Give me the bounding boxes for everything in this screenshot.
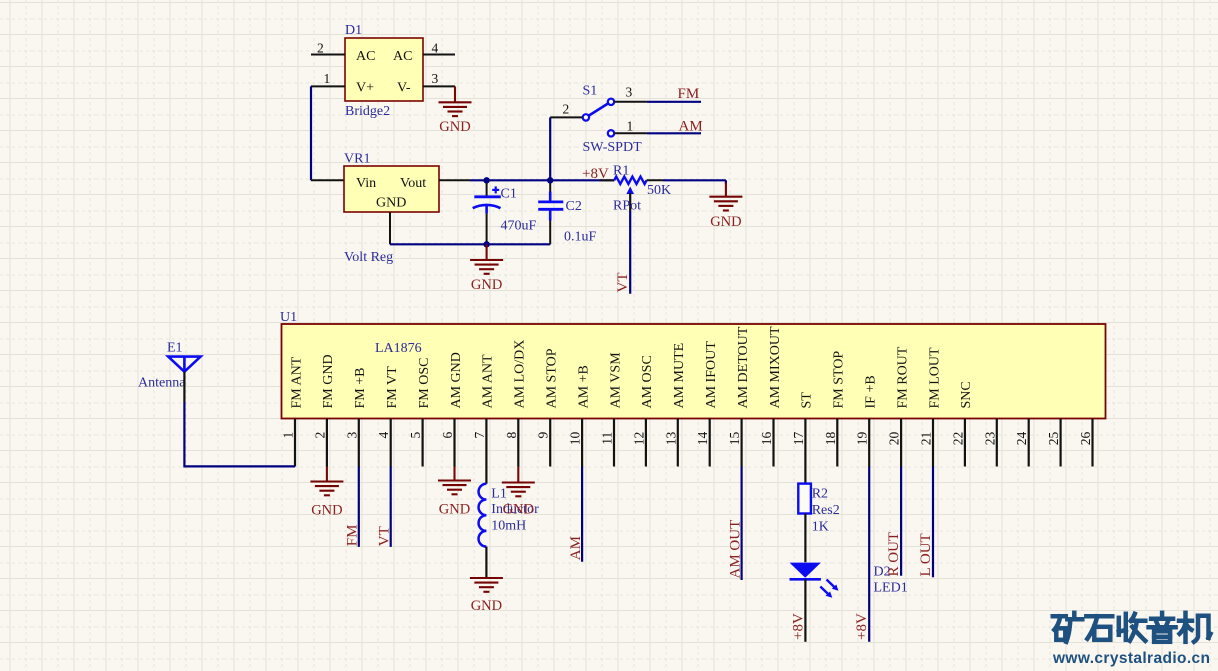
svg-text:SNC: SNC	[959, 381, 974, 408]
svg-text:1K: 1K	[812, 520, 829, 535]
S1 pin 1 wire to AM	[615, 119, 647, 134]
net label +8V (vertical) at pin17	[790, 613, 806, 640]
U1 pin 14	[695, 341, 719, 467]
svg-text:2: 2	[563, 102, 570, 117]
svg-text:IF +B: IF +B	[864, 375, 879, 408]
ground GND at U1 pin2	[310, 467, 343, 519]
svg-text:AM MUTE: AM MUTE	[672, 343, 687, 409]
wire U1 pin19 +8V net	[868, 467, 870, 642]
svg-text:FM: FM	[678, 86, 700, 102]
svg-text:FM STOP: FM STOP	[832, 351, 847, 409]
net label R OUT (vertical) at pin20	[886, 532, 902, 577]
svg-text:1: 1	[627, 119, 634, 134]
svg-text:AM ANT: AM ANT	[481, 354, 496, 409]
svg-text:VT: VT	[615, 273, 631, 293]
svg-text:FM +B: FM +B	[353, 368, 368, 409]
svg-text:RPot: RPot	[613, 199, 641, 214]
svg-text:AM MIXOUT: AM MIXOUT	[768, 326, 783, 409]
wire S1 pin2 down to rail	[549, 117, 551, 180]
wire VR1 Vout to +8V rail	[439, 179, 614, 181]
ground GND below C1	[470, 244, 503, 293]
svg-text:AM STOP: AM STOP	[545, 348, 560, 408]
svg-text:3: 3	[432, 71, 439, 86]
watermark url text	[1052, 650, 1210, 667]
svg-text:L1: L1	[491, 487, 507, 502]
svg-text:24: 24	[1014, 432, 1029, 446]
IC U1 LA1876 body	[280, 310, 1106, 419]
svg-text:AM: AM	[568, 536, 584, 560]
U1 pin 17	[791, 392, 815, 484]
antenna E1	[138, 341, 201, 403]
ground GND at D1 pin3	[439, 86, 472, 135]
svg-text:10: 10	[568, 432, 583, 446]
svg-text:Antenna: Antenna	[138, 376, 186, 391]
wire FM net	[647, 101, 701, 103]
svg-text:3: 3	[344, 432, 359, 439]
U1 pin 4	[376, 366, 400, 467]
U1 pin 2	[312, 354, 336, 466]
capacitor C1 (polarized 470uF)	[473, 180, 537, 244]
U1 pin 13	[663, 343, 687, 467]
svg-text:0.1uF: 0.1uF	[564, 230, 597, 245]
svg-text:S1: S1	[583, 84, 598, 99]
svg-text:12: 12	[631, 432, 646, 446]
wire R1 right to ground	[647, 180, 726, 183]
wire U1 pin3 FM net	[358, 467, 360, 547]
S1 pin 3 wire to FM	[615, 85, 647, 102]
D1 pin 2	[311, 41, 345, 56]
svg-text:VT: VT	[377, 526, 393, 546]
svg-text:D1: D1	[345, 23, 362, 38]
U1 pin 22	[950, 381, 974, 466]
junction node at C2 top	[547, 177, 553, 183]
inductor L1 10mH at U1 pin7	[479, 484, 540, 547]
svg-text:GND: GND	[710, 214, 741, 230]
svg-text:Bridge2: Bridge2	[345, 104, 390, 119]
svg-text:16: 16	[759, 432, 774, 446]
S1 pin 2 wire	[550, 102, 582, 118]
wire U1 pin21 L OUT net	[932, 467, 934, 578]
svg-text:8: 8	[504, 432, 519, 439]
svg-text:E1: E1	[167, 341, 183, 356]
svg-text:FM ANT: FM ANT	[289, 356, 304, 408]
svg-text:23: 23	[982, 432, 997, 446]
D1 pin 1	[311, 71, 345, 86]
svg-text:3: 3	[626, 85, 633, 100]
ground GND at U1 pin6	[438, 467, 471, 518]
net label L OUT (vertical) at pin21	[918, 533, 934, 576]
svg-text:Volt Reg: Volt Reg	[344, 250, 393, 265]
U1 pin 9	[536, 348, 560, 466]
svg-text:13: 13	[663, 432, 678, 446]
U1 pin 25	[1046, 419, 1061, 467]
svg-text:18: 18	[823, 432, 838, 446]
svg-text:50K: 50K	[647, 183, 671, 198]
U1 pin 20	[887, 346, 911, 466]
wire L1 to ground	[485, 547, 487, 578]
svg-text:9: 9	[536, 432, 551, 439]
net label VT (vertical)	[615, 273, 631, 293]
svg-text:GND: GND	[439, 502, 470, 518]
svg-text:SW-SPDT: SW-SPDT	[583, 140, 643, 155]
svg-text:+8V: +8V	[854, 613, 870, 640]
net label FM	[678, 86, 700, 102]
wire LED to +8V	[804, 579, 806, 642]
svg-text:VR1: VR1	[344, 152, 370, 167]
svg-text:4: 4	[432, 41, 439, 56]
svg-text:4: 4	[376, 432, 391, 439]
svg-text:FM ROUT: FM ROUT	[895, 346, 910, 408]
svg-text:6: 6	[440, 432, 455, 439]
svg-text:10mH: 10mH	[491, 519, 526, 534]
svg-text:AM OSC: AM OSC	[640, 355, 655, 408]
ground GND at U1 pin8	[502, 467, 535, 518]
svg-text:470uF: 470uF	[501, 219, 537, 234]
svg-text:U1: U1	[280, 310, 297, 325]
svg-text:20: 20	[887, 432, 902, 446]
svg-text:19: 19	[855, 432, 870, 446]
svg-text:C2: C2	[566, 199, 582, 214]
svg-text:Vin: Vin	[356, 176, 376, 191]
svg-text:AM +B: AM +B	[576, 365, 591, 408]
wire R1 wiper down to VT	[629, 211, 631, 294]
net label +8V on rail	[582, 166, 609, 182]
svg-text:Vout: Vout	[400, 176, 426, 191]
svg-text:V-: V-	[397, 81, 411, 96]
U1 pin 8	[504, 340, 528, 467]
svg-text:www.crystalradio.cn: www.crystalradio.cn	[1052, 650, 1210, 667]
svg-text:AM DETOUT: AM DETOUT	[736, 326, 751, 408]
svg-text:C1: C1	[501, 187, 517, 202]
svg-text:26: 26	[1078, 432, 1093, 446]
svg-text:17: 17	[791, 432, 806, 446]
wire AM net	[647, 132, 701, 134]
wire R2 to LED D2	[804, 514, 806, 563]
U1 pin 12	[631, 355, 655, 466]
svg-text:5: 5	[408, 432, 423, 439]
U1 pin 23	[982, 419, 997, 467]
resistor R2 Res2 1K	[798, 484, 839, 535]
potentiometer R1 RPot 50K	[600, 164, 672, 214]
svg-text:LA1876: LA1876	[375, 341, 422, 356]
svg-text:GND: GND	[471, 598, 502, 614]
net label AM (vertical) at pin10	[568, 536, 584, 560]
U1 pin 15	[727, 326, 751, 466]
net label +8V (vertical) at pin19	[854, 613, 870, 640]
net label VT (vertical) at pin4	[377, 526, 393, 546]
svg-text:ST: ST	[800, 392, 815, 409]
svg-text:2: 2	[312, 432, 327, 439]
U1 pin 21	[919, 347, 943, 467]
D1 pin 4	[423, 41, 455, 56]
wire U1 pin20 R OUT net	[900, 467, 902, 576]
U1 pin 3	[344, 368, 368, 467]
switch S1 SW-SPDT	[583, 84, 643, 156]
svg-text:FM OSC: FM OSC	[417, 358, 432, 409]
svg-text:L OUT: L OUT	[918, 533, 934, 576]
svg-text:V+: V+	[356, 81, 374, 96]
svg-text:1: 1	[324, 71, 331, 86]
watermark logo: crystalradio CJK characters (hand-drawn)	[1053, 613, 1211, 642]
svg-text:+8V: +8V	[790, 613, 806, 640]
U1 pin 6	[440, 352, 464, 466]
svg-text:22: 22	[950, 432, 965, 446]
svg-text:GND: GND	[376, 196, 406, 211]
svg-text:FM: FM	[345, 525, 361, 547]
svg-text:1: 1	[281, 432, 296, 439]
svg-text:FM VT: FM VT	[385, 366, 400, 409]
U1 pin 10	[568, 365, 592, 466]
svg-text:AM: AM	[679, 119, 703, 135]
svg-text:GND: GND	[471, 277, 502, 293]
U1 pin 16	[759, 326, 783, 467]
U1 pin 26	[1078, 419, 1093, 467]
svg-text:AM GND: AM GND	[449, 352, 464, 408]
net label AM OUT (vertical) at pin15	[727, 520, 743, 579]
svg-text:AM OUT: AM OUT	[727, 520, 743, 579]
svg-text:AC: AC	[393, 49, 412, 64]
wire D1 pin1 to VR1 Vin	[311, 86, 345, 180]
svg-text:Res2: Res2	[812, 503, 840, 518]
U1 pin 19	[855, 375, 879, 466]
svg-text:AM IFOUT: AM IFOUT	[704, 341, 719, 409]
D1 pin 3	[423, 71, 455, 86]
U1 pin 7	[472, 354, 496, 484]
wire antenna to U1 pin1	[184, 402, 295, 466]
U1 pin 18	[823, 351, 847, 467]
wire U1 pin15 AM OUT net	[740, 467, 742, 581]
U1 pin 24	[1014, 419, 1029, 467]
wire U1 pin4 VT net	[390, 467, 392, 547]
svg-text:GND: GND	[439, 119, 470, 135]
U1 pin 1	[281, 356, 305, 466]
svg-text:21: 21	[919, 432, 934, 446]
svg-text:11: 11	[600, 432, 615, 445]
U1 pin 11	[600, 352, 624, 467]
svg-text:GND: GND	[503, 502, 534, 518]
capacitor C2 (0.1uF)	[538, 180, 596, 244]
svg-text:R1: R1	[613, 164, 629, 179]
svg-text:AM VSM: AM VSM	[608, 352, 623, 409]
svg-text:R2: R2	[812, 487, 828, 502]
wire VR1 GND pin down and right (bottom rail)	[390, 212, 550, 244]
svg-text:GND: GND	[311, 503, 342, 519]
svg-text:R OUT: R OUT	[886, 532, 902, 577]
bridge rectifier D1 body	[345, 23, 423, 119]
svg-text:15: 15	[727, 432, 742, 446]
junction node at C1 bottom	[483, 241, 489, 247]
voltage regulator VR1 body	[344, 152, 439, 266]
svg-text:AC: AC	[356, 49, 375, 64]
svg-text:25: 25	[1046, 432, 1061, 446]
svg-text:2: 2	[317, 41, 324, 56]
svg-text:FM GND: FM GND	[321, 354, 336, 408]
junction node at C1 top	[483, 177, 489, 183]
svg-text:7: 7	[472, 432, 487, 439]
svg-text:FM LOUT: FM LOUT	[927, 347, 942, 409]
net label AM	[679, 119, 703, 135]
wire U1 pin10 AM net	[581, 467, 583, 562]
svg-text:14: 14	[695, 432, 710, 446]
U1 pin 5	[408, 358, 432, 467]
svg-text:AM LO/DX: AM LO/DX	[513, 340, 528, 409]
LED D2 LED1	[790, 563, 908, 598]
ground GND at R1	[709, 183, 742, 231]
net label FM (vertical) at pin3	[345, 525, 361, 547]
svg-text:LED1: LED1	[874, 581, 908, 596]
ground GND below L1	[470, 578, 503, 614]
